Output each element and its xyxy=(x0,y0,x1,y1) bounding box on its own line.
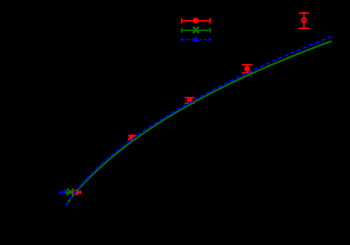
legend green X marker xyxy=(193,27,199,33)
red data point P2 error bar xyxy=(242,65,252,73)
red data point P3 marker xyxy=(187,97,193,103)
cluster red circle marker xyxy=(74,189,80,195)
cluster blue triangle marker xyxy=(62,189,68,194)
legend blue triangle marker xyxy=(192,36,199,42)
red data point P2 marker xyxy=(244,66,250,72)
red data point P4 error bar xyxy=(128,136,136,140)
legend red errorbar sample xyxy=(182,18,210,24)
cluster green X marker xyxy=(67,189,74,195)
cluster red point x-error bar xyxy=(73,191,81,194)
red data point P1 marker (open circle) xyxy=(301,17,307,23)
cluster green point x-error bar xyxy=(66,191,74,194)
cluster blue point x-error bar xyxy=(60,191,68,194)
blue dashed theory curve xyxy=(66,37,331,206)
green theory curve xyxy=(66,41,331,205)
red data point P1 error bar xyxy=(299,12,310,29)
legend blue dashed errorbar sample xyxy=(182,38,210,42)
legend red filled circle marker xyxy=(193,18,199,24)
legend green errorbar sample xyxy=(182,28,210,33)
red data point P4 marker xyxy=(129,134,135,140)
red data point P3 error bar xyxy=(185,98,195,104)
